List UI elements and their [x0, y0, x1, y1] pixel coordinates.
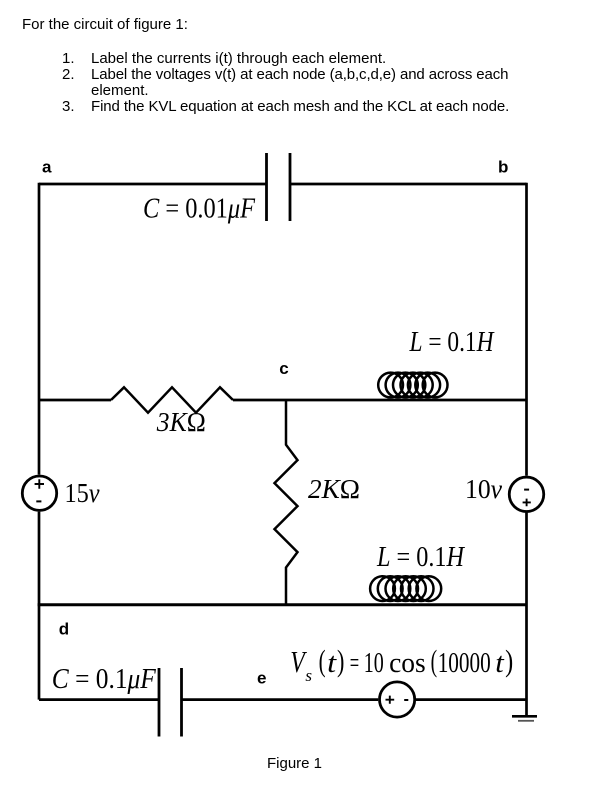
wire bottom right segment: [416, 698, 527, 701]
svg-text:d: d: [59, 620, 69, 639]
wire d horizontal: [38, 603, 527, 606]
wire right vertical lower (10v to ground): [525, 513, 528, 717]
intro text: [22, 17, 188, 33]
svg-text:(: (: [431, 643, 438, 678]
resistor R1 3K zigzag: [111, 387, 233, 412]
voltage source V1 plus sign: [35, 479, 44, 488]
list item 2: [62, 67, 75, 83]
voltage source V2 plus sign: [523, 499, 531, 507]
voltage source Vs plus sign: [386, 696, 395, 704]
svg-text:t: t: [495, 648, 505, 679]
capacitor C1 0.01uF plates: [267, 153, 291, 221]
wire bottom left segment: [39, 698, 159, 701]
svg-text:15v: 15v: [65, 478, 100, 508]
voltage source V2 minus sign: [524, 489, 529, 491]
svg-text:s: s: [305, 666, 312, 685]
svg-text:e: e: [257, 669, 266, 688]
svg-text:L = 0.1H: L = 0.1H: [376, 542, 465, 573]
list item 3: [62, 99, 75, 115]
wire middle horizontal right segment: [233, 399, 527, 402]
voltage source V2 10v circle: [509, 477, 544, 512]
svg-text:a: a: [42, 157, 52, 176]
voltage source Vs equation label: [290, 643, 513, 685]
wire top (a-b) right segment: [290, 183, 527, 186]
svg-text:C = 0.01μF: C = 0.01μF: [143, 193, 256, 224]
inductor L1 0.1H coil (top): [378, 373, 447, 398]
svg-text:cos: cos: [389, 648, 426, 679]
wire left vertical lower (15v to bottom): [38, 512, 41, 700]
voltage source V1 15v circle: [22, 476, 56, 510]
voltage source Vs minus sign: [404, 699, 408, 701]
svg-text:L = 0.1H: L = 0.1H: [409, 327, 495, 358]
svg-text:=: =: [350, 648, 359, 679]
svg-text:C = 0.1μF: C = 0.1μF: [52, 664, 157, 695]
capacitor C2 0.1uF plates: [159, 668, 182, 737]
svg-text:): ): [505, 643, 513, 678]
resistor R2 2K vertical zigzag: [275, 400, 298, 605]
wire bottom middle segment: [182, 698, 379, 701]
inductor L2 0.1H coil (bottom): [370, 576, 441, 601]
svg-text:3KΩ: 3KΩ: [156, 407, 206, 437]
wire right vertical upper (b to 10v): [525, 183, 528, 476]
figure caption: [267, 756, 322, 772]
voltage source Vs circle: [380, 682, 415, 717]
svg-text:b: b: [498, 157, 508, 176]
svg-text:10v: 10v: [465, 474, 502, 504]
wire top (a-b) left segment: [39, 183, 267, 186]
list item 1: [62, 51, 75, 67]
svg-text:c: c: [279, 359, 288, 378]
voltage source V1 minus sign: [36, 500, 41, 502]
svg-text:(: (: [319, 643, 326, 678]
svg-text:): ): [337, 643, 344, 678]
svg-text:10000: 10000: [438, 648, 491, 679]
wire middle horizontal left lead: [39, 399, 111, 402]
svg-text:2KΩ: 2KΩ: [308, 474, 360, 504]
ground symbol: [512, 715, 537, 718]
wire left vertical upper (a to 15v): [38, 183, 41, 475]
svg-text:10: 10: [364, 648, 384, 679]
